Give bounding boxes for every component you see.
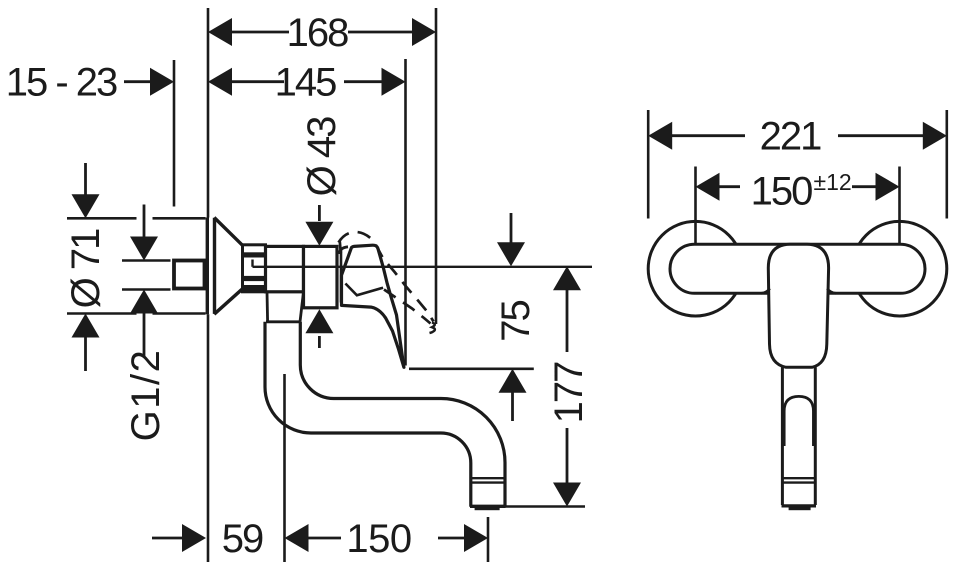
handle dashed raised position (339, 232, 435, 333)
bar-handle fillets (761, 289, 770, 294)
extension line x=174 (173, 60, 176, 207)
extension line x=436 (435, 8, 438, 324)
dim 168 (208, 18, 436, 46)
bottom ref line (505, 505, 585, 508)
dim 150+-12 (694, 167, 697, 244)
extension line x=488 (487, 517, 490, 562)
aerator side (471, 478, 505, 482)
dim G12 arrows (130, 205, 158, 357)
dim 177 arrows (553, 266, 581, 506)
extension line wall x=208 (207, 8, 210, 562)
body section B (O43) (304, 246, 338, 307)
extension line x=284.5 (283, 374, 286, 562)
bottom dims (152, 524, 488, 552)
swivel collar (266, 292, 304, 322)
escutcheon cone (207, 218, 242, 315)
square wall stub (174, 261, 205, 289)
svg-text:221: 221 (760, 115, 821, 159)
svg-text:168: 168 (287, 11, 348, 55)
nut (243, 245, 266, 292)
front view circles (648, 221, 743, 316)
dim 221 (647, 110, 650, 219)
center line (253, 260, 593, 267)
handle tip ref line (409, 367, 534, 370)
dim O71 ticks (67, 217, 137, 220)
svg-text:Ø 71: Ø 71 (64, 229, 108, 308)
svg-text:177: 177 (547, 362, 591, 423)
svg-text:150: 150 (346, 517, 411, 561)
dim 145 (208, 68, 406, 96)
front view bar (670, 244, 925, 293)
svg-text:145: 145 (275, 61, 336, 105)
svg-text:75: 75 (494, 301, 538, 342)
front view aerator (782, 478, 815, 482)
svg-text:150: 150 (751, 170, 812, 214)
dim G12 ticks (122, 259, 171, 262)
spout inner edge (300, 322, 505, 507)
svg-text:15 - 23: 15 - 23 (6, 61, 117, 105)
handle side view solid (342, 245, 404, 367)
front view spout tube (781, 367, 784, 505)
handle cap back arc (339, 247, 348, 254)
svg-text:59: 59 (222, 517, 263, 561)
dim O71 arrows (72, 163, 100, 371)
handle contour line (345, 284, 383, 296)
svg-text:±12: ±12 (814, 169, 852, 195)
front view handle (768, 244, 828, 367)
body front face (340, 248, 343, 303)
spout outer edge (265, 322, 471, 507)
dim 75 arrows (497, 213, 527, 421)
dim O43 arrows (305, 205, 333, 348)
extension line x=405.5 (404, 59, 407, 366)
svg-text:G1/2: G1/2 (124, 349, 168, 442)
svg-text:Ø 43: Ø 43 (300, 117, 344, 196)
dim 15-23 arrow (124, 68, 174, 96)
body section A (266, 246, 304, 291)
front view spout arch (784, 396, 813, 446)
